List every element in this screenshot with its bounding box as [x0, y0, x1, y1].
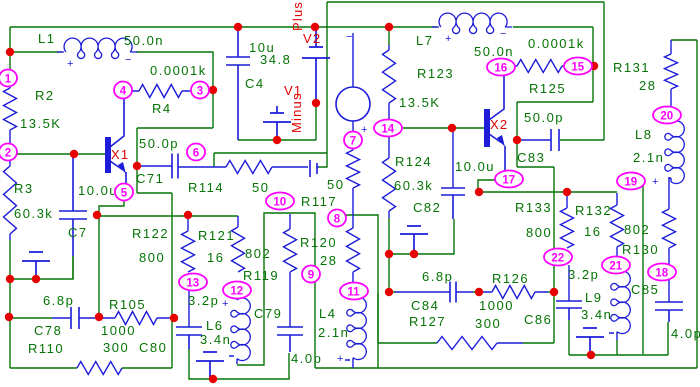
node 19 — [617, 173, 645, 190]
capacitor C85 stem — [668, 280, 670, 302]
junction base X1 — [70, 150, 78, 158]
node 22 — [544, 249, 572, 266]
svg-text:4.0p: 4.0p — [671, 326, 700, 341]
capacitor C79 — [277, 327, 303, 352]
capacitor C84 — [395, 282, 473, 303]
junction V2 top — [311, 23, 319, 31]
node 20 — [653, 107, 681, 124]
svg-text:C85: C85 — [631, 282, 659, 297]
resistor R120 — [347, 228, 360, 283]
svg-text:802: 802 — [624, 222, 650, 237]
capacitor C71 right lead to R114 — [178, 166, 226, 168]
svg-text:50.0n: 50.0n — [474, 44, 514, 59]
resistor R132 — [611, 193, 624, 257]
svg-text:17: 17 — [502, 174, 515, 186]
wire bottom bus right half — [315, 367, 697, 369]
capacitor C82 top stem — [452, 128, 454, 188]
svg-text:−: − — [346, 31, 354, 43]
svg-text:3: 3 — [197, 85, 203, 97]
resistor R124 — [383, 136, 396, 218]
node 15 — [564, 58, 592, 75]
wire x172 long vertical to bottom box — [171, 193, 173, 368]
inductor L4 coil — [347, 297, 367, 360]
node 9 — [302, 266, 320, 283]
wire y317 row segments — [10, 317, 99, 319]
junction V2 bottom — [312, 99, 320, 107]
svg-text:16: 16 — [584, 224, 601, 239]
svg-text:L7: L7 — [416, 33, 433, 48]
junction battery lower-left — [209, 375, 217, 383]
wire x137 down from y128 to y193 — [136, 128, 138, 193]
wire y216 bus left — [97, 215, 238, 217]
inductor L4 — [352, 297, 354, 299]
svg-text:R125: R125 — [529, 81, 566, 96]
svg-text:R117: R117 — [301, 194, 337, 209]
svg-text:L6: L6 — [206, 318, 223, 333]
svg-text:X2: X2 — [490, 117, 508, 132]
svg-text:R131: R131 — [613, 60, 650, 75]
resistor R119 — [284, 214, 297, 272]
node 16 — [487, 59, 515, 76]
wire x327 top vertical — [326, 2, 328, 153]
resistor R117 — [347, 148, 360, 188]
R117 to R120 lead — [352, 188, 354, 228]
capacitor C4 — [226, 27, 250, 140]
wire y128 under R4 box — [137, 127, 213, 129]
svg-text:C84: C84 — [411, 298, 439, 313]
svg-text:R110: R110 — [28, 341, 64, 356]
svg-text:3.4n: 3.4n — [200, 332, 231, 347]
wire y355 row — [569, 320, 668, 355]
resistor R126 — [479, 286, 548, 299]
svg-text:R114: R114 — [188, 180, 224, 195]
resistor R114 — [226, 161, 308, 174]
resistor R133 — [561, 193, 574, 248]
svg-text:13.5K: 13.5K — [20, 116, 61, 131]
svg-text:C80: C80 — [139, 340, 167, 355]
svg-text:C79: C79 — [254, 306, 282, 321]
junction C4 top — [234, 23, 242, 31]
svg-text:21: 21 — [609, 260, 622, 272]
wire base X1 y154 — [16, 153, 106, 155]
node 17 — [495, 171, 523, 188]
wire R123 top — [388, 27, 390, 45]
svg-text:X1: X1 — [111, 147, 129, 162]
svg-text:16: 16 — [207, 250, 224, 265]
svg-text:+: + — [652, 176, 660, 188]
wire x554 long vertical — [553, 167, 555, 343]
wire y192 bus right — [479, 191, 617, 193]
junction R123 top — [385, 23, 393, 31]
svg-text:18: 18 — [655, 267, 668, 279]
wire x10 column low — [9, 240, 11, 368]
svg-text:2.1n: 2.1n — [318, 325, 349, 340]
svg-text:10.0u: 10.0u — [78, 183, 118, 198]
transistor X1 bar — [105, 137, 111, 173]
svg-text:34.8: 34.8 — [260, 52, 291, 67]
node 21 — [602, 257, 630, 274]
wire top bus y27 left segment — [10, 26, 437, 28]
wire y292 row green parts — [389, 291, 554, 293]
svg-text:C7: C7 — [68, 225, 88, 240]
junction C83 left — [513, 136, 521, 144]
svg-text:C71: C71 — [136, 171, 164, 186]
svg-text:14: 14 — [381, 123, 394, 135]
inductor L6 — [236, 298, 238, 300]
wire x697 right edge — [696, 40, 698, 368]
svg-text:0.0001k: 0.0001k — [528, 36, 585, 51]
wire y368 bottom left box — [10, 367, 172, 369]
capacitor C86 stem from node 22 — [568, 265, 570, 301]
node 7 — [344, 132, 362, 149]
node 18 — [648, 264, 676, 281]
svg-text:800: 800 — [139, 250, 165, 265]
svg-text:3.2p: 3.2p — [188, 293, 219, 308]
capacitor C80 stem from node 13 — [188, 290, 190, 327]
svg-text:22: 22 — [551, 252, 564, 264]
junction V1 bottom — [273, 136, 281, 144]
wire node5 stub and x99 vertical — [99, 201, 124, 317]
wire x389 from bus254 to row292 — [388, 254, 390, 292]
svg-text:R105: R105 — [109, 297, 146, 312]
svg-text:Plus: Plus — [290, 1, 305, 31]
junction R122 top — [184, 211, 192, 219]
svg-text:50: 50 — [327, 177, 344, 192]
inductor L6 coil — [231, 298, 251, 361]
junction battery left — [32, 275, 40, 283]
junction C78 left — [5, 313, 13, 321]
svg-text:R120: R120 — [300, 235, 337, 250]
wire node17 stub — [478, 180, 495, 192]
resistor R130 — [663, 178, 676, 264]
wire x593 from top bus to node15 — [517, 27, 593, 102]
svg-text:10: 10 — [273, 196, 286, 208]
junction C78 right — [95, 313, 103, 321]
svg-text:13: 13 — [186, 277, 199, 289]
svg-text:L9: L9 — [585, 290, 602, 305]
wire R124 bottom to bus — [388, 218, 390, 254]
capacitor C7 — [59, 156, 87, 256]
transistor X2 emitter with arrow — [489, 134, 505, 171]
resistor R127 — [437, 337, 523, 350]
capacitor C79 stem — [289, 272, 291, 327]
svg-text:−: − — [125, 54, 133, 66]
svg-text:19: 19 — [624, 176, 637, 188]
svg-text:5: 5 — [121, 187, 128, 199]
junction R126 right — [550, 288, 558, 296]
svg-text:800: 800 — [526, 225, 552, 240]
junction C71 left — [133, 162, 141, 170]
svg-text:−: − — [500, 28, 508, 40]
resistor R3 — [4, 160, 17, 240]
node 12 — [223, 282, 251, 299]
junction R133 top — [563, 188, 571, 196]
transistor X2 collector — [489, 75, 504, 120]
wire L1 right to x213 corner down to node3 — [136, 52, 213, 128]
wire y2 top — [327, 1, 604, 3]
svg-text:V2: V2 — [303, 31, 321, 46]
svg-text:R122: R122 — [132, 226, 169, 241]
wire C7 bottom green — [72, 256, 74, 279]
junction battery right — [410, 250, 418, 258]
resistor R123 — [383, 45, 396, 120]
svg-text:6.8p: 6.8p — [422, 269, 453, 284]
node 11 — [340, 283, 368, 300]
wire x604 down to C83 right — [560, 2, 604, 140]
capacitor C78 — [52, 307, 97, 329]
svg-text:4.0p: 4.0p — [291, 351, 322, 366]
svg-text:50.0p: 50.0p — [524, 110, 564, 125]
battery bias lower-left — [196, 352, 224, 379]
wire y279 ground row left — [10, 256, 73, 279]
svg-text:C86: C86 — [524, 312, 552, 327]
node 3 — [191, 82, 209, 99]
svg-text:9: 9 — [308, 269, 314, 281]
transistor X1 emitter with arrow — [110, 161, 126, 185]
capacitor C80 — [176, 327, 202, 349]
resistor R105 — [101, 312, 174, 325]
wire node8 stub to x378 down — [345, 215, 378, 368]
svg-text:16: 16 — [494, 62, 507, 74]
svg-text:50.0n: 50.0n — [124, 33, 164, 48]
wire node19 to x643 down — [642, 186, 644, 354]
wire y254 bias row — [389, 219, 454, 254]
svg-text:12: 12 — [230, 285, 243, 297]
node 1 — [0, 70, 17, 87]
inductor L7 — [432, 13, 512, 33]
svg-text:1000: 1000 — [479, 298, 514, 313]
battery bias lower-right — [576, 328, 604, 355]
svg-text:3.2p: 3.2p — [568, 267, 599, 282]
svg-text:R2: R2 — [35, 88, 55, 103]
svg-text:R130: R130 — [622, 242, 659, 257]
junction C84 right — [475, 288, 483, 296]
svg-text:R4: R4 — [152, 101, 172, 116]
junction battery lower-right — [587, 351, 595, 359]
capacitor at R114 right end — [310, 160, 319, 177]
svg-text:50: 50 — [252, 180, 269, 195]
inductor L9 coil — [611, 271, 631, 334]
svg-text:L1: L1 — [38, 31, 55, 46]
node 8 — [328, 210, 346, 227]
wire lower box with battery left — [189, 349, 289, 379]
capacitor C83 — [520, 129, 559, 151]
svg-text:C83: C83 — [517, 150, 545, 165]
svg-text:802: 802 — [245, 246, 271, 261]
junction node17 corner — [475, 188, 483, 196]
svg-text:20: 20 — [660, 110, 673, 122]
svg-text:+: + — [222, 298, 230, 310]
junction node3 right — [209, 86, 217, 94]
battery V1 — [263, 106, 291, 140]
capacitor C85 — [655, 302, 683, 322]
svg-text:R132: R132 — [575, 203, 612, 218]
svg-text:15: 15 — [571, 61, 584, 73]
inductor L1 — [57, 38, 137, 58]
resistor R110 — [77, 362, 122, 375]
wire x10 column top — [9, 27, 11, 79]
battery V2 — [302, 27, 330, 103]
sine source VS circle — [336, 87, 370, 121]
wire top bus y27 right segment — [513, 26, 593, 28]
svg-text:6: 6 — [193, 147, 199, 159]
svg-text:R119: R119 — [243, 268, 279, 283]
wire y52 from corner to L1 — [10, 51, 62, 53]
wire y193 stub to x172 — [137, 192, 172, 194]
node 14 — [374, 120, 402, 137]
svg-text:6.8p: 6.8p — [43, 293, 74, 308]
node 13 — [179, 274, 207, 291]
svg-text:+: + — [361, 124, 369, 136]
junction C82 top — [448, 124, 456, 132]
svg-text:2: 2 — [5, 147, 11, 159]
node 10 — [266, 193, 294, 210]
svg-text:0.0001k: 0.0001k — [150, 63, 207, 78]
junction R3 bottom — [6, 275, 14, 283]
svg-text:C78: C78 — [34, 323, 62, 338]
resistor R121 — [232, 216, 245, 272]
sine source stems — [352, 33, 354, 133]
junction R105 right — [170, 314, 178, 322]
capacitor C71 — [139, 154, 178, 179]
transistor X1 collector — [110, 98, 124, 147]
svg-text:50.0p: 50.0p — [139, 136, 179, 151]
resistor R2 — [4, 79, 17, 152]
svg-text:8: 8 — [334, 213, 341, 225]
junction L1 left — [6, 48, 14, 56]
wire y40 corner to R131 — [671, 39, 697, 41]
svg-text:11: 11 — [347, 286, 360, 298]
svg-text:1: 1 — [5, 73, 12, 85]
wire R119 box — [237, 213, 315, 368]
resistor R131 — [665, 40, 678, 107]
resistor R4 — [132, 85, 190, 98]
svg-text:Minus: Minus — [289, 92, 304, 133]
svg-text:7: 7 — [350, 135, 356, 147]
svg-text:+: + — [337, 353, 345, 365]
svg-text:L4: L4 — [319, 306, 336, 321]
wire x214 stub — [213, 153, 215, 167]
svg-text:13.5K: 13.5K — [399, 95, 440, 110]
svg-text:R133: R133 — [515, 200, 552, 215]
transistor X2 bar — [484, 109, 490, 147]
capacitor C82 — [441, 188, 465, 219]
svg-text:28: 28 — [320, 253, 337, 268]
svg-text:300: 300 — [475, 316, 501, 331]
svg-text:4: 4 — [120, 85, 127, 97]
node 6 — [187, 144, 205, 161]
wire R127 row green parts — [378, 293, 554, 343]
svg-text:2.1n: 2.1n — [633, 150, 664, 165]
wire base X2 y128 — [402, 127, 485, 129]
resistor R125 — [510, 60, 570, 73]
svg-text:R126: R126 — [492, 271, 529, 286]
svg-text:R124: R124 — [395, 154, 432, 169]
svg-text:L8: L8 — [635, 127, 652, 142]
junction node15 right — [590, 62, 598, 70]
svg-text:28: 28 — [639, 78, 656, 93]
svg-text:R121: R121 — [198, 228, 235, 243]
svg-text:C82: C82 — [413, 200, 441, 215]
svg-text:C4: C4 — [245, 76, 265, 91]
wire y140 below V1 — [238, 103, 316, 140]
wire x517 down to C83 left — [517, 102, 554, 167]
svg-text:+: + — [67, 58, 75, 70]
svg-text:R123: R123 — [417, 66, 454, 81]
capacitor C86 — [556, 301, 582, 320]
svg-text:1000: 1000 — [101, 323, 136, 338]
svg-text:+: + — [445, 33, 453, 45]
junction y216 left — [93, 211, 101, 219]
svg-text:60.3k: 60.3k — [14, 206, 53, 221]
wire y153 middle link — [214, 153, 327, 167]
inductor L8 coil — [665, 121, 685, 184]
battery bias left — [22, 252, 50, 279]
svg-text:3.4n: 3.4n — [581, 307, 612, 322]
svg-text:60.3k: 60.3k — [394, 178, 433, 193]
svg-text:300: 300 — [103, 340, 129, 355]
node 2 — [0, 144, 17, 161]
svg-text:R3: R3 — [14, 181, 34, 196]
svg-text:R127: R127 — [409, 314, 446, 329]
junction R124 bottom — [385, 250, 393, 258]
node 5 — [115, 184, 133, 201]
battery bias right — [400, 226, 428, 254]
resistor R122 — [182, 217, 195, 272]
svg-text:10.0u: 10.0u — [455, 159, 495, 174]
junction C84 left — [385, 288, 393, 296]
node 4 — [114, 82, 132, 99]
